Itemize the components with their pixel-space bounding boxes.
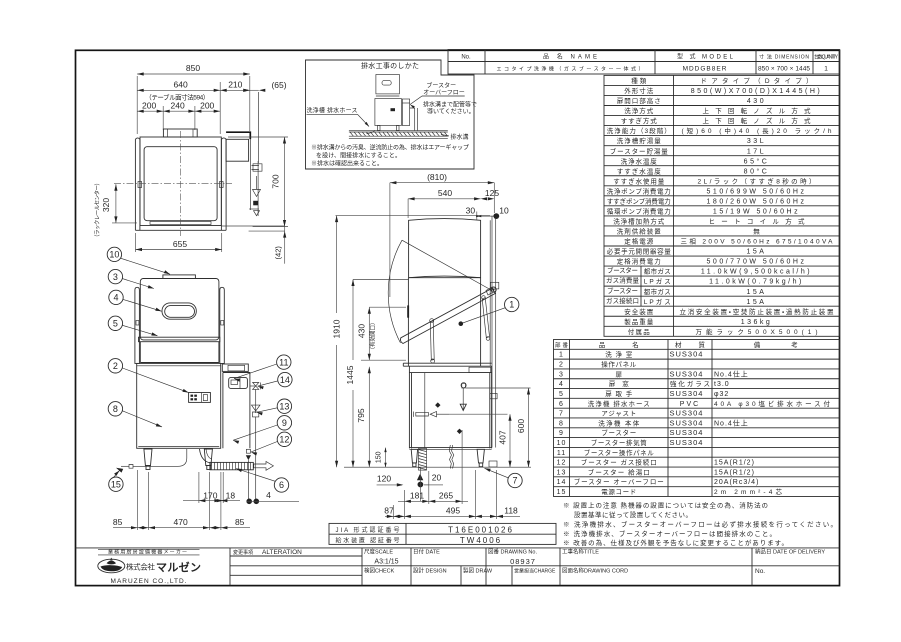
svg-text:8: 8 [113, 404, 118, 414]
side view dim 181/265 [403, 490, 405, 504]
svg-text:ガス消費量: ガス消費量 [606, 276, 640, 285]
svg-text:7: 7 [512, 476, 517, 486]
title block grid [76, 547, 840, 549]
balloon callout 12 [277, 432, 291, 446]
drain label channel [441, 135, 449, 137]
svg-text:洗浄能力（3段階）: 洗浄能力（3段階） [607, 126, 671, 135]
svg-text:扉 取 手: 扉 取 手 [605, 389, 633, 398]
svg-text:すすぎ水使用量: すすぎ水使用量 [613, 176, 665, 185]
plan view dim 640/210 [137, 89, 250, 91]
svg-text:ブースター 給湯口: ブースター 給湯口 [588, 467, 650, 476]
svg-text:320: 320 [101, 198, 111, 212]
svg-text:寸 法 DIMENSION: 寸 法 DIMENSION [759, 54, 809, 61]
svg-text:13: 13 [557, 469, 567, 476]
svg-text:600: 600 [516, 419, 526, 433]
svg-text:納品日 DATE OF DELIVERY: 納品日 DATE OF DELIVERY [755, 548, 825, 556]
svg-text:No.4仕上: No.4仕上 [714, 418, 749, 427]
svg-text:14: 14 [280, 375, 290, 385]
svg-text:1: 1 [509, 300, 514, 310]
svg-text:都市ガス: 都市ガス [644, 267, 671, 276]
drain box machine door [376, 75, 400, 94]
svg-text:SUS304: SUS304 [670, 369, 704, 378]
svg-text:ブースター: ブースター [607, 266, 638, 275]
side view small diamonds [435, 402, 440, 407]
svg-text:工事名称TITLE: 工事名称TITLE [562, 548, 599, 556]
front view door [140, 279, 219, 340]
svg-text:87: 87 [384, 506, 394, 516]
balloon callout 2 [108, 359, 122, 373]
svg-text:t3.0: t3.0 [714, 381, 730, 388]
svg-text:640: 640 [174, 79, 188, 89]
svg-text:給水装置 認証番号: 給水装置 認証番号 [336, 536, 400, 544]
svg-text:5: 5 [113, 319, 118, 329]
svg-text:4: 4 [266, 490, 271, 500]
svg-text:2: 2 [113, 361, 118, 371]
side view exhaust pipe [491, 216, 493, 447]
side view pipe fittings [491, 282, 499, 289]
svg-text:430: 430 [747, 98, 766, 105]
svg-text:3: 3 [559, 371, 564, 378]
plan view dim 850 [137, 73, 250, 75]
svg-text:定格電源: 定格電源 [624, 237, 654, 246]
front view dim extension lines [137, 470, 139, 530]
svg-text:都市ガス: 都市ガス [644, 287, 671, 296]
front view door handle [162, 303, 196, 319]
svg-text:ブースター貯湯量: ブースター貯湯量 [610, 146, 669, 155]
svg-text:6: 6 [559, 401, 564, 408]
side view hood box [409, 219, 481, 278]
svg-text:上下回転ノズル方式: 上下回転ノズル方式 [703, 106, 812, 115]
svg-text:洗浄ポンプ消費電力: 洗浄ポンプ消費電力 [607, 186, 671, 195]
svg-text:製品重量: 製品重量 [624, 317, 654, 326]
svg-text:85: 85 [235, 517, 245, 527]
svg-text:排水工事のしかた: 排水工事のしかた [361, 61, 419, 70]
alteration box rows [230, 555, 362, 557]
balloon callout 14 [278, 372, 292, 386]
svg-text:14: 14 [557, 479, 567, 486]
svg-text:日付 DATE: 日付 DATE [413, 548, 440, 556]
plan view main body [140, 137, 221, 226]
svg-text:扉: 扉 [616, 370, 623, 378]
svg-text:外形寸法: 外形寸法 [624, 86, 654, 95]
svg-text:洗浄槽貯湯量: 洗浄槽貯湯量 [617, 136, 662, 145]
balloon callout 10 [107, 247, 121, 261]
side view base top [403, 362, 491, 364]
svg-text:MDDGB8ER: MDDGB8ER [683, 66, 728, 73]
balloon callout 4 [109, 290, 123, 304]
side view hinge bracket [486, 287, 494, 295]
plan view booster top-right [226, 132, 250, 139]
side view gas inlet symbol [416, 412, 429, 416]
svg-text:電源コード: 電源コード [601, 487, 636, 496]
front view gas connection stub [246, 449, 250, 453]
plan view bottom strip [150, 222, 211, 225]
svg-text:洗浄機 本体: 洗浄機 本体 [598, 418, 640, 427]
svg-text:181: 181 [410, 491, 424, 501]
svg-text:33L: 33L [747, 138, 766, 145]
svg-text:170: 170 [203, 490, 217, 500]
svg-text:操作パネル: 操作パネル [601, 360, 637, 369]
front view power cord [133, 449, 187, 466]
side view door prop rod [430, 321, 434, 360]
front view corrugated drain hose [210, 462, 253, 469]
svg-text:洗 浄 室: 洗 浄 室 [605, 350, 633, 359]
svg-text:150: 150 [376, 451, 383, 463]
front view left door rail [135, 287, 140, 363]
side view dim 150 [385, 448, 387, 468]
svg-text:540: 540 [438, 188, 452, 198]
svg-text:10: 10 [109, 250, 119, 260]
svg-text:6: 6 [279, 480, 284, 490]
svg-text:118: 118 [504, 506, 518, 516]
svg-text:※ 設置上の注意 熱機器の設置については安全の為、消防法の: ※ 設置上の注意 熱機器の設置については安全の為、消防法の [563, 501, 768, 510]
svg-text:1: 1 [824, 66, 828, 73]
side view dim 30/10 [476, 212, 478, 221]
side view body left edge [407, 278, 409, 366]
front view hot water funnel [252, 405, 261, 411]
svg-text:ブースター: ブースター [601, 428, 636, 437]
front view rail bolts [136, 321, 139, 326]
svg-text:設計 DESIGN: 設計 DESIGN [413, 567, 447, 575]
svg-text:5: 5 [559, 391, 564, 398]
front view booster body [223, 373, 250, 449]
side view open door bar [400, 288, 495, 343]
plan view dim 655 [136, 249, 222, 251]
svg-text:品 名 NAME: 品 名 NAME [543, 53, 597, 61]
svg-text:15A(R1/2): 15A(R1/2) [714, 460, 755, 467]
svg-text:ブースター: ブースター [426, 82, 456, 90]
front view door lower panel [140, 342, 219, 363]
plan view dim (42) [222, 225, 285, 227]
svg-text:洗浄槽 排水ホース: 洗浄槽 排水ホース [307, 107, 358, 115]
svg-text:図面名称DRAWING CORD: 図面名称DRAWING CORD [562, 567, 628, 575]
svg-text:株式会社: 株式会社 [126, 562, 156, 572]
svg-text:18: 18 [226, 490, 236, 500]
svg-text:850 × 700 × 1445: 850 × 700 × 1445 [758, 66, 810, 73]
svg-text:12: 12 [557, 460, 567, 467]
svg-text:30: 30 [466, 206, 476, 216]
svg-text:MARUZEN CO.,LTD.: MARUZEN CO.,LTD. [111, 578, 188, 585]
front view right door rail [220, 287, 225, 363]
front view booster water valve [250, 385, 256, 387]
svg-text:検図CHECK: 検図CHECK [364, 567, 395, 575]
front view dim 85/470/85 [113, 527, 250, 529]
svg-text:80°C: 80°C [744, 167, 770, 175]
balloon callout 8 [108, 402, 122, 416]
svg-text:※ 改善の為、仕様及び外観を予告なしに変更することがあります: ※ 改善の為、仕様及び外観を予告なしに変更することがあります。 [563, 538, 788, 547]
svg-text:洗浄水温度: 洗浄水温度 [621, 156, 658, 165]
svg-text:洗浄槽加熱方式: 洗浄槽加熱方式 [613, 217, 665, 226]
specification table grid [604, 75, 840, 336]
svg-text:200: 200 [142, 101, 156, 111]
svg-text:営業担当CHARGE: 営業担当CHARGE [514, 568, 556, 575]
svg-text:アジャスト: アジャスト [601, 410, 636, 418]
svg-text:材 質: 材 質 [675, 340, 706, 349]
svg-text:15A: 15A [747, 289, 767, 296]
svg-text:図番 DRAWING No.: 図番 DRAWING No. [488, 549, 537, 556]
svg-text:4: 4 [559, 381, 564, 388]
balloon callout 1 [505, 297, 519, 311]
balloon callout 6 [274, 478, 288, 492]
svg-text:9: 9 [559, 430, 564, 437]
plan view door rail bolts [138, 182, 142, 188]
side view drain pipe hatched [419, 448, 427, 470]
svg-text:85: 85 [113, 517, 123, 527]
balloon callout 5 [108, 316, 122, 330]
front view booster control panel [229, 378, 248, 389]
front view vent cap [163, 275, 196, 279]
svg-text:製図 DRAW: 製図 DRAW [463, 567, 493, 575]
front view legs [144, 449, 152, 466]
JIA certification table [329, 523, 556, 544]
svg-text:11.0kW(0.79kg/h): 11.0kW(0.79kg/h) [709, 279, 804, 286]
svg-text:850: 850 [186, 63, 200, 73]
svg-text:180/260W 50/60Hz: 180/260W 50/60Hz [707, 198, 807, 205]
svg-text:すすぎポンプ消費電力: すすぎポンプ消費電力 [607, 196, 671, 205]
svg-text:15/19W 50/60Hz: 15/19W 50/60Hz [713, 208, 800, 215]
svg-text:4: 4 [113, 293, 118, 303]
svg-text:ドアタイプ（Dタイプ）: ドアタイプ（Dタイプ） [701, 76, 813, 85]
svg-text:136kg: 136kg [741, 319, 773, 326]
svg-text:1445: 1445 [345, 365, 355, 384]
drain work instruction box [306, 60, 475, 169]
svg-text:変更事項: 変更事項 [233, 549, 253, 556]
svg-text:No.: No. [461, 55, 471, 61]
svg-text:循環ポンプ消費電力: 循環ポンプ消費電力 [607, 206, 671, 215]
front view booster gas pipe down [255, 389, 257, 413]
svg-text:洗浄方式: 洗浄方式 [624, 106, 654, 115]
svg-text:φ32: φ32 [714, 391, 729, 398]
svg-text:尺度SCALE: 尺度SCALE [364, 548, 393, 556]
svg-text:No.4仕上: No.4仕上 [714, 369, 749, 378]
front view drain hose arrow [254, 462, 274, 471]
svg-text:655: 655 [173, 239, 187, 249]
svg-text:(42): (42) [273, 246, 282, 260]
svg-text:型 式 MODEL: 型 式 MODEL [677, 53, 734, 61]
plan view dim 700 [284, 137, 286, 227]
svg-text:ブースター排気筒: ブースター排気筒 [591, 438, 648, 447]
svg-text:扉開口部高さ: 扉開口部高さ [617, 96, 661, 105]
svg-text:ブースター ガス接続口: ブースター ガス接続口 [581, 458, 657, 467]
svg-text:15: 15 [111, 479, 121, 489]
svg-text:10: 10 [557, 440, 567, 447]
plan view vent cap [163, 129, 197, 137]
front view booster top lip [222, 364, 248, 371]
plan view dim 200/240/200 [137, 110, 220, 112]
balloon callout 9 [277, 416, 291, 430]
svg-text:10: 10 [499, 206, 509, 216]
svg-text:(短)60 (中)40 (長)20 ラック/h: (短)60 (中)40 (長)20 ラック/h [682, 126, 832, 135]
floor line [344, 466, 531, 468]
svg-text:SUS304: SUS304 [670, 428, 704, 437]
svg-text:No.: No. [755, 568, 765, 575]
svg-text:SUS304: SUS304 [670, 438, 704, 447]
svg-text:ガス接続口: ガス接続口 [606, 296, 639, 305]
side view dim 795 [368, 367, 370, 467]
svg-text:ALTERATION: ALTERATION [262, 549, 302, 556]
svg-text:付属品: 付属品 [628, 327, 650, 336]
svg-text:上下回転ノズル方式: 上下回転ノズル方式 [703, 116, 812, 125]
svg-text:430: 430 [356, 324, 366, 338]
drain box overflow pipe [410, 108, 418, 131]
side view water inlet symbol [462, 384, 466, 389]
svg-text:11: 11 [557, 450, 566, 457]
svg-text:必要手元開閉器容量: 必要手元開閉器容量 [607, 247, 672, 256]
svg-text:7: 7 [559, 411, 564, 418]
svg-text:120: 120 [377, 473, 391, 483]
svg-text:導いてください。: 導いてください。 [427, 108, 475, 116]
svg-text:定格消費電力: 定格消費電力 [617, 257, 661, 266]
plan view right rail [221, 138, 226, 230]
balloon callout 15 [109, 477, 123, 491]
svg-text:すすぎ方式: すすぎ方式 [621, 116, 658, 125]
svg-text:470: 470 [174, 517, 188, 527]
svg-text:(810): (810) [427, 172, 447, 182]
side view dim 430 opening [368, 307, 370, 360]
svg-text:08937: 08937 [510, 557, 536, 566]
drain channel with hatch [349, 130, 448, 132]
svg-text:を設け、間接排水にすること。: を設け、間接排水にすること。 [316, 151, 401, 159]
side view reference lines for 600/407 [466, 387, 531, 389]
front view gas pipe dots and dim 4 [246, 499, 252, 505]
side view door pivot [491, 287, 496, 292]
front view door lower bar [139, 337, 220, 342]
side view below-floor markers [417, 474, 423, 481]
svg-text:65°C: 65°C [744, 157, 770, 165]
svg-text:795: 795 [356, 408, 366, 422]
side view door swing arc [388, 240, 402, 343]
side view base top-right recess [469, 367, 491, 372]
svg-text:種類: 種類 [631, 76, 647, 85]
side view dim (810) [390, 182, 494, 184]
svg-text:ブースター操作パネル: ブースター操作パネル [584, 448, 655, 457]
svg-text:12: 12 [279, 435, 289, 445]
side view base frame [409, 366, 491, 448]
front view body [137, 363, 221, 448]
drain box machine legs [377, 126, 380, 131]
svg-text:T16E001026: T16E001026 [448, 525, 514, 534]
plan view inner tank [144, 147, 217, 221]
svg-text:20: 20 [432, 472, 442, 482]
svg-text:安全装置: 安全装置 [624, 307, 654, 316]
svg-text:SUS304: SUS304 [670, 350, 704, 359]
svg-text:TW4006: TW4006 [460, 536, 502, 545]
svg-text:11.0kW(9,500kcal/h): 11.0kW(9,500kcal/h) [701, 269, 812, 276]
svg-text:15A: 15A [747, 299, 767, 306]
svg-text:210: 210 [228, 79, 242, 89]
side view legs [411, 449, 417, 463]
svg-text:11: 11 [279, 357, 288, 367]
header table (No./NAME/MODEL/DIMENSION/QUANTITY) [448, 50, 840, 75]
side view dim 407 [509, 414, 511, 467]
drain box washer drain hose [367, 131, 376, 134]
svg-text:17L: 17L [747, 148, 766, 155]
side view break line mark [449, 445, 451, 469]
svg-text:排水溝まで配管等で: 排水溝まで配管等で [423, 100, 477, 108]
svg-text:PVC: PVC [680, 401, 700, 408]
svg-text:業務用厨房設備機器メーカー: 業務用厨房設備機器メーカー [108, 548, 187, 555]
svg-text:407: 407 [498, 430, 508, 444]
svg-text:510/699W 50/60Hz: 510/699W 50/60Hz [707, 188, 807, 195]
svg-text:※排水は確認出来ること。: ※排水は確認出来ること。 [311, 160, 383, 168]
svg-text:扉 窓: 扉 窓 [609, 379, 630, 388]
svg-text:（ラックレールセンター）: （ラックレールセンター） [93, 180, 101, 240]
side view dim 87/495/118 [392, 505, 394, 519]
svg-text:3: 3 [113, 272, 118, 282]
front view drain hose curve [200, 449, 210, 463]
svg-text:※排水溝からの汚臭、逆流防止の為、排水はエアーギャップ: ※排水溝からの汚臭、逆流防止の為、排水はエアーギャップ [311, 143, 469, 151]
svg-text:SUS304: SUS304 [670, 389, 704, 398]
svg-text:200: 200 [200, 101, 214, 111]
svg-text:(65): (65) [271, 80, 286, 90]
balloon callout 11 [277, 355, 291, 369]
svg-text:マルゼン: マルゼン [156, 560, 201, 574]
svg-text:オーバーフロー: オーバーフロー [423, 90, 465, 97]
svg-text:部番: 部番 [555, 342, 568, 349]
svg-text:SUS304: SUS304 [670, 418, 704, 427]
svg-text:ブースター オーバーフロー: ブースター オーバーフロー [574, 477, 664, 486]
svg-text:850(W)X700(D)X1445(H): 850(W)X700(D)X1445(H) [691, 88, 822, 95]
svg-text:1910: 1910 [331, 319, 341, 338]
balloon callout 3 [108, 269, 122, 283]
drain box booster column [402, 99, 409, 126]
side view dim 600 [528, 388, 530, 467]
svg-text:設置基準に従って設置してください。: 設置基準に従って設置してください。 [574, 510, 692, 519]
side view door edge mark [407, 305, 409, 317]
balloon callout 13 [277, 399, 291, 413]
svg-text:9: 9 [282, 418, 287, 428]
balloon callout 7 [508, 473, 522, 487]
svg-text:265: 265 [439, 491, 453, 501]
plan view service connections [257, 161, 259, 216]
svg-text:240: 240 [171, 101, 185, 111]
svg-text:13: 13 [279, 401, 289, 411]
svg-text:125: 125 [485, 188, 499, 198]
svg-text:品 名: 品 名 [599, 340, 639, 349]
plan view centerlines [180, 131, 182, 236]
svg-text:700: 700 [271, 174, 281, 188]
svg-text:8: 8 [559, 420, 564, 427]
svg-text:15A(R1/2): 15A(R1/2) [714, 469, 755, 476]
svg-text:すすぎ水温度: すすぎ水温度 [617, 166, 662, 175]
drain box machine body [376, 95, 400, 97]
side view body right edge [480, 278, 482, 366]
svg-text:A3:1/15: A3:1/15 [374, 559, 398, 566]
svg-text:（有効開口）: （有効開口） [368, 319, 376, 352]
svg-text:台数 QUANTITY: 台数 QUANTITY [814, 54, 839, 61]
front view dim 170/18 [183, 500, 240, 502]
drawing sheet outer frame [76, 50, 840, 585]
plan view left rail [135, 138, 140, 230]
svg-text:500/770W 50/60Hz: 500/770W 50/60Hz [707, 259, 807, 266]
svg-text:ブースター: ブースター [607, 286, 638, 295]
front view control panel [189, 393, 211, 403]
svg-text:強化ガラス: 強化ガラス [670, 379, 710, 388]
parts list table grid [554, 340, 840, 497]
svg-text:2: 2 [559, 362, 564, 369]
svg-text:15A: 15A [747, 249, 767, 256]
svg-text:20A(Rc3/4): 20A(Rc3/4) [714, 479, 759, 486]
maruzen company logo block [98, 548, 200, 550]
svg-text:排水溝: 排水溝 [451, 133, 469, 141]
svg-text:洗剤供給装置: 洗剤供給装置 [617, 227, 662, 236]
svg-text:洗浄機 排水ホース: 洗浄機 排水ホース [588, 399, 650, 408]
svg-text:SUS304: SUS304 [670, 409, 704, 418]
svg-text:※ 洗浄機排水、ブースターオーバーフローは間接排水のこと。: ※ 洗浄機排水、ブースターオーバーフローは間接排水のこと。 [563, 529, 776, 538]
side view dim 540/125 [408, 198, 481, 200]
side view fan upper edge [402, 240, 492, 290]
svg-text:1: 1 [559, 352, 564, 359]
